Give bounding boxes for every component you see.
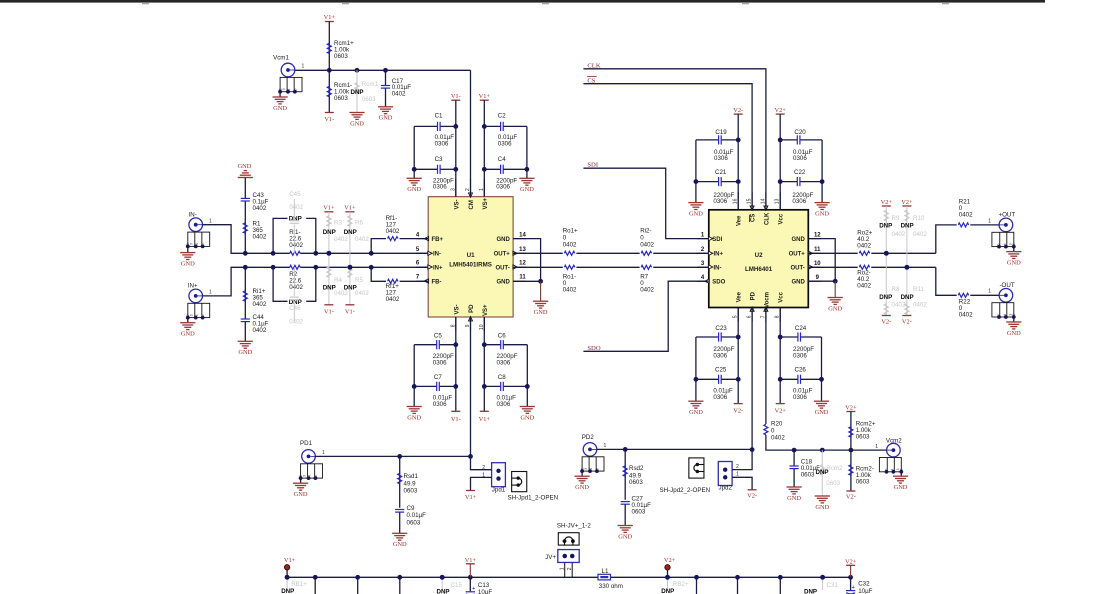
svg-text:V1+: V1+ bbox=[479, 93, 491, 100]
power V1+ (U1 bottom) bbox=[479, 317, 491, 423]
svg-text:0603: 0603 bbox=[334, 53, 348, 60]
svg-text:0306: 0306 bbox=[497, 401, 511, 408]
svg-text:DNP: DNP bbox=[351, 89, 364, 96]
svg-text:V1+: V1+ bbox=[323, 205, 335, 212]
svg-text:0402: 0402 bbox=[563, 242, 577, 249]
svg-text:0306: 0306 bbox=[433, 359, 447, 366]
wire U2 GND pins 12-9 bbox=[808, 239, 843, 313]
power tap V2+ bbox=[664, 557, 676, 577]
svg-text:0306: 0306 bbox=[793, 394, 807, 401]
svg-text:5: 5 bbox=[416, 247, 420, 253]
wire Vocm net dots bbox=[792, 448, 854, 453]
svg-text:0: 0 bbox=[640, 235, 644, 242]
resistor Ro2- bbox=[808, 265, 936, 290]
resistor Ri1+ bbox=[243, 267, 267, 318]
svg-text:Rsd1: Rsd1 bbox=[404, 473, 419, 480]
wire C2/C4 right rail to ground bbox=[519, 126, 534, 193]
svg-text:V1+: V1+ bbox=[465, 557, 477, 564]
svg-text:C2: C2 bbox=[498, 113, 506, 120]
svg-text:0306: 0306 bbox=[496, 184, 510, 191]
resistor Ro2+ bbox=[808, 230, 936, 256]
svg-text:0402: 0402 bbox=[289, 204, 303, 211]
power V2+ (above C32) bbox=[845, 558, 857, 577]
svg-text:0306: 0306 bbox=[433, 184, 447, 191]
svg-text:0306: 0306 bbox=[713, 394, 727, 401]
pin arrows U1 bbox=[424, 193, 517, 321]
svg-text:0603: 0603 bbox=[856, 478, 870, 485]
resistor R8 DNP bbox=[879, 286, 906, 326]
capacitor C19 bbox=[696, 129, 738, 162]
resistor R9 DNP column bbox=[879, 199, 906, 316]
svg-text:3: 3 bbox=[701, 261, 705, 267]
wire Jpd2 pin1 to V2- bbox=[732, 477, 757, 499]
connector IN- bbox=[180, 211, 212, 267]
svg-text:1: 1 bbox=[302, 64, 305, 70]
top toolbar edge bar bbox=[0, 0, 1045, 3]
svg-text:V2+: V2+ bbox=[774, 407, 786, 414]
resistor Ri1- bbox=[289, 229, 303, 255]
wire pin stubs bbox=[416, 179, 821, 331]
wire U2 PD pin6 bbox=[750, 308, 755, 453]
svg-text:V2-: V2- bbox=[747, 493, 757, 500]
svg-text:DNP: DNP bbox=[289, 216, 302, 223]
capacitor C22 bbox=[780, 169, 822, 205]
svg-text:V1-: V1- bbox=[345, 308, 355, 315]
resistor R5 DNP bbox=[344, 265, 370, 316]
svg-text:C5: C5 bbox=[434, 332, 442, 339]
svg-text:FB+: FB+ bbox=[432, 237, 444, 243]
svg-text:Vcc: Vcc bbox=[779, 291, 785, 302]
wire U1 GND pins 14-11 bbox=[513, 239, 548, 316]
svg-text:0402: 0402 bbox=[857, 283, 871, 290]
svg-text:R6: R6 bbox=[355, 219, 363, 226]
resistor R6 DNP column bbox=[344, 205, 370, 305]
svg-text:Vcm1: Vcm1 bbox=[273, 54, 289, 61]
svg-text:330 ohm: 330 ohm bbox=[599, 583, 623, 590]
wire PD2 net bbox=[597, 447, 752, 452]
capacitor C21 bbox=[696, 169, 738, 205]
connector IN+ bbox=[180, 283, 212, 338]
svg-text:C1: C1 bbox=[435, 113, 443, 120]
svg-text:RB2+: RB2+ bbox=[673, 581, 689, 588]
svg-text:DNP: DNP bbox=[879, 223, 892, 230]
resistor Rf1+ bbox=[371, 267, 428, 303]
DNP bracket lower bbox=[273, 267, 316, 306]
svg-text:0306: 0306 bbox=[714, 155, 728, 162]
svg-text:DNP: DNP bbox=[437, 588, 450, 594]
svg-text:1: 1 bbox=[988, 289, 991, 295]
svg-text:VS+: VS+ bbox=[483, 304, 489, 316]
net label CLK bbox=[583, 62, 766, 210]
svg-text:12: 12 bbox=[519, 261, 526, 267]
svg-text:0603: 0603 bbox=[404, 488, 418, 495]
capacitor C25 bbox=[696, 367, 738, 401]
pin numbers U1 right bbox=[519, 232, 526, 280]
svg-text:DNP: DNP bbox=[901, 223, 914, 230]
svg-text:C25: C25 bbox=[715, 367, 727, 374]
op-amp U1 LMH5401IRMS bbox=[428, 197, 513, 317]
svg-text:0402: 0402 bbox=[289, 242, 303, 249]
svg-text:0402: 0402 bbox=[913, 302, 927, 309]
svg-text:GND: GND bbox=[496, 279, 510, 285]
capacitor C1 bbox=[414, 113, 456, 148]
svg-text:Jpd1: Jpd1 bbox=[492, 486, 506, 493]
svg-text:IN+: IN+ bbox=[433, 265, 443, 271]
svg-text:C22: C22 bbox=[794, 169, 806, 176]
svg-text:LMH5401IRMS: LMH5401IRMS bbox=[449, 261, 492, 268]
svg-text:13: 13 bbox=[519, 247, 526, 253]
net label CS bbox=[583, 77, 752, 210]
shunt SH-Jpd1 bbox=[508, 472, 559, 502]
svg-text:0402: 0402 bbox=[959, 212, 973, 219]
svg-text:PD: PD bbox=[469, 304, 475, 313]
capacitor C5 bbox=[414, 332, 456, 366]
svg-text:V1+: V1+ bbox=[284, 557, 296, 564]
svg-text:0306: 0306 bbox=[433, 401, 447, 408]
svg-text:SH-Jpd1_2-OPEN: SH-Jpd1_2-OPEN bbox=[508, 495, 559, 502]
capacitor C23 bbox=[696, 325, 738, 359]
svg-text:SH-Jpd2_2-OPEN: SH-Jpd2_2-OPEN bbox=[660, 487, 711, 494]
capacitor C15 DNP bbox=[437, 575, 463, 594]
svg-text:1: 1 bbox=[875, 444, 878, 450]
capacitor C26 bbox=[780, 367, 821, 401]
wire Jpd2 pin2 to PD net bbox=[732, 450, 752, 470]
resistor R3 DNP column bbox=[323, 205, 349, 305]
resistor Ro1+ bbox=[513, 228, 640, 256]
capacitor C4 bbox=[484, 156, 527, 191]
svg-text:0402: 0402 bbox=[771, 435, 785, 442]
power V1- (U1 bottom) bbox=[451, 317, 461, 423]
svg-text:1: 1 bbox=[322, 450, 325, 456]
svg-text:C32: C32 bbox=[858, 581, 870, 588]
resistor Rcm2+ bbox=[845, 404, 876, 450]
capacitor C13 bbox=[466, 577, 493, 594]
svg-text:4: 4 bbox=[416, 232, 420, 238]
svg-text:0306: 0306 bbox=[792, 198, 806, 205]
svg-text:R9: R9 bbox=[892, 215, 900, 222]
resistor Rcm1+ bbox=[327, 22, 354, 71]
header Jpd1 bbox=[482, 463, 506, 494]
pin numbers U1 bottom bbox=[450, 324, 485, 330]
wire IN+ net bbox=[203, 265, 429, 296]
power V1- bbox=[324, 113, 334, 123]
resistor Rsd1 bbox=[398, 456, 419, 507]
svg-text:14: 14 bbox=[519, 232, 526, 238]
wire rail drop B bbox=[357, 577, 359, 594]
capacitor C32 bbox=[846, 577, 873, 594]
svg-text:C9: C9 bbox=[407, 505, 415, 512]
svg-text:10µF: 10µF bbox=[858, 588, 872, 594]
pin arrows U2 bbox=[705, 206, 813, 311]
svg-text:Ro1+: Ro1+ bbox=[563, 228, 578, 235]
wire rail drop C bbox=[399, 577, 401, 594]
capacitor C45 DNP bbox=[289, 191, 303, 254]
svg-text:R4: R4 bbox=[334, 277, 342, 284]
svg-text:V1+: V1+ bbox=[324, 14, 336, 21]
resistor Rcm1- bbox=[327, 70, 352, 112]
ground above C43 bbox=[238, 163, 253, 198]
svg-text:0306: 0306 bbox=[793, 155, 807, 162]
svg-text:DNP: DNP bbox=[816, 469, 829, 476]
svg-text:C7: C7 bbox=[434, 374, 442, 381]
svg-text:0603: 0603 bbox=[632, 509, 646, 516]
svg-text:R5: R5 bbox=[355, 277, 363, 284]
wire PD1 net bbox=[315, 454, 473, 459]
pin numbers U2 bottom bbox=[733, 315, 781, 318]
wire C23/C25 left rail to ground bbox=[688, 337, 703, 416]
svg-text:R10: R10 bbox=[913, 215, 925, 222]
resistor R11 DNP bbox=[901, 286, 928, 326]
svg-text:0402: 0402 bbox=[253, 234, 267, 241]
wire C1/C3 left rail to ground bbox=[407, 126, 422, 193]
svg-text:LMH6401: LMH6401 bbox=[745, 266, 773, 273]
svg-text:C8: C8 bbox=[498, 374, 506, 381]
svg-text:0603: 0603 bbox=[362, 96, 376, 103]
capacitor C46 DNP bbox=[289, 267, 303, 325]
svg-text:R8: R8 bbox=[892, 286, 900, 293]
pin numbers U1 left bbox=[416, 232, 420, 280]
svg-text:DNP: DNP bbox=[661, 588, 674, 594]
wire U1 PD pin9 bbox=[470, 317, 472, 456]
svg-text:Ri2-: Ri2- bbox=[640, 228, 651, 235]
svg-text:DNP: DNP bbox=[879, 294, 892, 301]
svg-text:1: 1 bbox=[701, 232, 705, 238]
resistor Ri2- bbox=[640, 228, 709, 256]
wire rail drop F bbox=[779, 577, 781, 594]
svg-text:0306: 0306 bbox=[498, 141, 512, 148]
power tap V1+ bbox=[284, 557, 296, 577]
capacitor C44 bbox=[238, 314, 269, 356]
wire bottom V2+ rail bbox=[611, 575, 853, 580]
wire rail drop A bbox=[314, 577, 316, 594]
svg-text:0603: 0603 bbox=[856, 434, 870, 441]
pin numbers U2 top bbox=[733, 198, 781, 204]
capacitor C31 DNP bbox=[804, 575, 839, 594]
svg-text:6: 6 bbox=[416, 261, 420, 267]
svg-text:Jpd2: Jpd2 bbox=[718, 484, 732, 491]
capacitor C6 bbox=[484, 332, 527, 366]
svg-text:Vee: Vee bbox=[737, 291, 743, 302]
svg-text:C24: C24 bbox=[795, 325, 807, 332]
svg-text:C21: C21 bbox=[715, 169, 727, 176]
resistor Rcm2 DNP bbox=[815, 450, 843, 511]
svg-text:VS-: VS- bbox=[454, 305, 460, 315]
svg-text:GND: GND bbox=[791, 280, 805, 286]
net label SDI bbox=[583, 162, 708, 239]
svg-text:GND: GND bbox=[238, 163, 252, 170]
svg-text:9: 9 bbox=[816, 275, 820, 281]
svg-text:U2: U2 bbox=[755, 252, 763, 259]
svg-text:V2-: V2- bbox=[902, 319, 912, 326]
svg-text:JV+: JV+ bbox=[545, 554, 556, 561]
header JV+ bbox=[545, 550, 579, 578]
svg-text:V1-: V1- bbox=[324, 308, 334, 315]
svg-text:+: + bbox=[852, 585, 855, 591]
resistor Rf1- bbox=[371, 215, 428, 253]
wire C5/C7 left rail to ground bbox=[407, 345, 422, 422]
svg-text:4: 4 bbox=[701, 275, 705, 281]
resistor Ro1- bbox=[513, 265, 640, 293]
wire C19/C21 left rail to ground bbox=[688, 140, 703, 218]
svg-text:RB1+: RB1+ bbox=[291, 581, 307, 588]
resistor R21 bbox=[936, 199, 999, 254]
svg-text:FB-: FB- bbox=[432, 279, 442, 285]
svg-text:0603: 0603 bbox=[801, 471, 815, 478]
capacitor C2 bbox=[484, 113, 527, 148]
power V2- (U2 top) bbox=[733, 107, 743, 210]
svg-text:-OUT: -OUT bbox=[1000, 282, 1015, 289]
svg-text:+OUT: +OUT bbox=[999, 212, 1016, 219]
connector PD2 bbox=[575, 434, 607, 491]
resistor R2 bbox=[289, 265, 303, 291]
svg-text:SH-JV+_1-2: SH-JV+_1-2 bbox=[557, 522, 591, 529]
svg-text:V1+: V1+ bbox=[465, 494, 477, 501]
svg-text:0402: 0402 bbox=[959, 312, 973, 319]
capacitor C24 bbox=[780, 325, 821, 359]
shunt SH-Jpd2 bbox=[660, 458, 711, 494]
svg-text:Rsd2: Rsd2 bbox=[629, 465, 644, 472]
wire bottom V1+ rail bbox=[285, 575, 598, 580]
svg-text:Rcm2: Rcm2 bbox=[826, 465, 843, 472]
svg-text:V1-: V1- bbox=[451, 416, 461, 423]
svg-text:V1+: V1+ bbox=[479, 416, 491, 423]
svg-text:1: 1 bbox=[209, 290, 212, 296]
svg-text:V2-: V2- bbox=[733, 107, 743, 114]
svg-text:C6: C6 bbox=[498, 332, 506, 339]
svg-text:Vocm: Vocm bbox=[764, 292, 770, 308]
svg-text:OUT+: OUT+ bbox=[494, 252, 511, 258]
svg-text:IN-: IN- bbox=[189, 211, 197, 218]
ferrite RB1+ DNP bbox=[281, 575, 307, 594]
resistor R7 bbox=[640, 265, 709, 293]
svg-text:C15: C15 bbox=[451, 582, 463, 589]
capacitor C43 bbox=[241, 192, 269, 253]
svg-text:10: 10 bbox=[814, 261, 821, 267]
svg-text:PD2: PD2 bbox=[582, 434, 595, 441]
resistor R20 bbox=[764, 308, 851, 451]
svg-text:C23: C23 bbox=[715, 325, 727, 332]
svg-text:V2-: V2- bbox=[881, 319, 891, 326]
svg-text:IN-: IN- bbox=[714, 266, 722, 272]
shunt SH-JV+ bbox=[557, 522, 591, 545]
svg-text:Vee: Vee bbox=[737, 215, 743, 226]
svg-text:0.01µF: 0.01µF bbox=[407, 512, 427, 519]
power V2- (U2 bottom) bbox=[733, 308, 743, 415]
svg-text:0402: 0402 bbox=[355, 290, 369, 297]
page border tick marks bbox=[142, 3, 949, 4]
svg-text:1: 1 bbox=[560, 567, 566, 570]
svg-text:V2+: V2+ bbox=[845, 404, 857, 411]
power V1+ bbox=[324, 14, 336, 21]
svg-text:0402: 0402 bbox=[563, 286, 577, 293]
svg-text:0306: 0306 bbox=[497, 359, 511, 366]
svg-text:PD1: PD1 bbox=[300, 440, 313, 447]
op-amp U2 LMH6401 bbox=[709, 210, 809, 308]
svg-text:C4: C4 bbox=[498, 156, 506, 163]
connector Vcm2 bbox=[851, 437, 908, 491]
power V1- (U1 top) bbox=[451, 93, 461, 197]
svg-text:0402: 0402 bbox=[355, 236, 369, 243]
header Jpd2 bbox=[718, 462, 739, 492]
wire Jpd1 pin2 to PD net bbox=[471, 456, 492, 469]
svg-text:C19: C19 bbox=[715, 129, 727, 136]
svg-text:1: 1 bbox=[988, 218, 991, 224]
resistor Rcm1 DNP bbox=[349, 70, 378, 127]
svg-text:CS: CS bbox=[751, 214, 757, 222]
power V2+ (U2 top) bbox=[774, 107, 786, 210]
wire IN- net bbox=[203, 225, 429, 256]
ferrite RB2+ DNP bbox=[661, 575, 689, 594]
wire rail drop D bbox=[696, 577, 698, 594]
svg-text:0306: 0306 bbox=[713, 198, 727, 205]
wire C6/C8 right rail to ground bbox=[520, 345, 535, 422]
svg-text:0402: 0402 bbox=[253, 327, 267, 334]
resistor R1 bbox=[243, 221, 267, 241]
capacitor C20 bbox=[780, 129, 822, 162]
svg-text:0306: 0306 bbox=[793, 352, 807, 359]
wire rail drop E bbox=[737, 577, 739, 594]
svg-text:0402: 0402 bbox=[386, 296, 400, 303]
svg-text:C31: C31 bbox=[827, 582, 839, 589]
DNP bracket upper bbox=[273, 216, 316, 254]
svg-text:2: 2 bbox=[567, 567, 573, 570]
svg-text:+: + bbox=[472, 586, 475, 592]
svg-text:IN+: IN+ bbox=[714, 252, 724, 258]
svg-text:0603: 0603 bbox=[629, 479, 643, 486]
pin numbers U2 right bbox=[814, 232, 821, 281]
svg-text:GND: GND bbox=[791, 237, 805, 243]
svg-text:0306: 0306 bbox=[435, 141, 449, 148]
svg-text:2: 2 bbox=[701, 247, 705, 253]
svg-text:0402: 0402 bbox=[640, 242, 654, 249]
connector PD1 bbox=[293, 440, 325, 498]
svg-text:7: 7 bbox=[416, 275, 420, 281]
svg-text:1: 1 bbox=[209, 219, 212, 225]
svg-text:CLK: CLK bbox=[764, 212, 770, 225]
pin numbers U2 left bbox=[701, 232, 705, 281]
resistor Rsd2 bbox=[623, 449, 644, 499]
svg-text:0402: 0402 bbox=[289, 284, 303, 291]
svg-text:V2+: V2+ bbox=[774, 107, 786, 114]
svg-text:0306: 0306 bbox=[713, 352, 727, 359]
svg-text:R11: R11 bbox=[913, 286, 924, 293]
svg-text:V2-: V2- bbox=[846, 493, 856, 500]
svg-text:11: 11 bbox=[519, 275, 526, 281]
svg-text:C26: C26 bbox=[795, 367, 807, 374]
connector Vcm1 bbox=[273, 54, 305, 112]
inductor L1 330 ohm bbox=[598, 568, 623, 590]
svg-text:Rcm1: Rcm1 bbox=[362, 81, 379, 88]
svg-text:0402: 0402 bbox=[289, 319, 303, 326]
svg-text:GND: GND bbox=[496, 237, 510, 243]
svg-text:1: 1 bbox=[604, 443, 607, 449]
svg-text:0402: 0402 bbox=[392, 91, 406, 98]
svg-text:0402: 0402 bbox=[640, 286, 654, 293]
svg-text:C45: C45 bbox=[289, 191, 301, 198]
svg-text:C46: C46 bbox=[289, 305, 301, 312]
wire Jpd1 pin1 to V1+ bbox=[465, 477, 492, 501]
svg-text:0402: 0402 bbox=[913, 231, 927, 238]
svg-text:0603: 0603 bbox=[334, 95, 348, 102]
node Vcm1 wire bbox=[295, 68, 471, 197]
svg-text:V2+: V2+ bbox=[901, 199, 913, 206]
svg-text:OUT-: OUT- bbox=[790, 266, 804, 272]
net label SDO bbox=[583, 281, 708, 352]
power V1+ (above C13) bbox=[465, 557, 477, 577]
svg-text:49.9: 49.9 bbox=[404, 480, 417, 487]
svg-text:V1+: V1+ bbox=[344, 205, 356, 212]
svg-text:0402: 0402 bbox=[334, 236, 348, 243]
